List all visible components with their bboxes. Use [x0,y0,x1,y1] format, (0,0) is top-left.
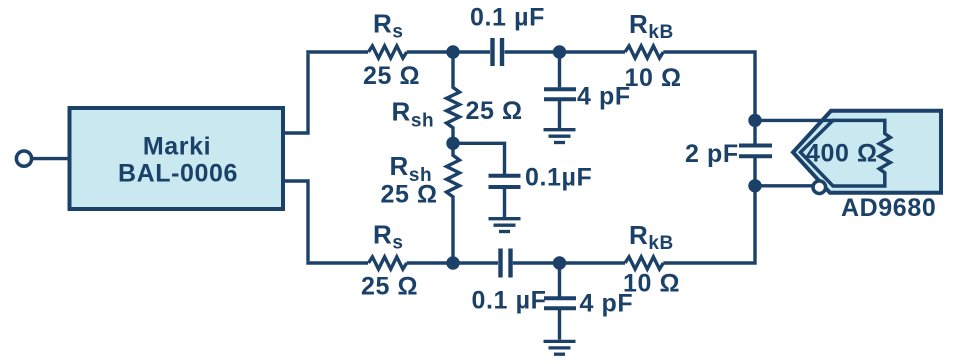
node C [748,114,761,127]
wire C5 to ground [558,308,561,339]
svg-text:Marki: Marki [143,133,211,161]
wire input to balun [32,157,68,160]
wire node E to C4 [453,261,498,264]
svg-text:0.1 µF: 0.1 µF [472,287,547,315]
resistor Rsh1 vertical [447,52,460,143]
capacitor C2 4pF top [544,89,576,99]
svg-text:RkB: RkB [629,220,674,254]
wire node A to C1 [453,50,490,53]
svg-text:10 Ω: 10 Ω [623,269,680,297]
wire node F down to C5 [558,263,561,297]
wire node G to ADC minus input [755,184,812,187]
wire Rs to node A [407,50,453,53]
node B [553,45,566,58]
wire RkB top to node C [663,52,755,120]
wire C2 to ground [558,99,561,128]
wire node F to RkB bottom [560,261,626,264]
svg-text:0.1µF: 0.1µF [525,164,592,192]
wire node C to C6 top [753,120,756,145]
svg-text:RkB: RkB [629,9,674,43]
wire C1 to node B [505,50,560,53]
wire bottom rail left [306,261,368,264]
input terminal [16,151,31,166]
svg-text:10 Ω: 10 Ω [625,64,682,92]
svg-text:Rsh: Rsh [392,96,435,131]
wire balun bottom pin [283,181,308,261]
resistor Rsh2 vertical [447,143,460,263]
node A [446,45,459,58]
ADC U2 outer body [793,111,941,193]
wire Rs bottom to node E [407,261,453,264]
node E [446,256,459,269]
balun U1 Marki BAL-0006 [70,108,284,209]
svg-text:25 Ω: 25 Ω [381,181,438,209]
svg-text:0.1 µF: 0.1 µF [470,4,545,32]
capacitor C4 0.1uF bottom [501,249,511,278]
ground G1 [544,130,576,143]
svg-text:400 Ω: 400 Ω [806,139,878,167]
resistor Rs top [368,46,406,58]
capacitor C3 0.1uF mid [489,176,521,187]
node F [553,256,566,269]
svg-text:Rs: Rs [373,219,404,253]
wire balun top pin [283,54,308,133]
resistor Rs bottom [368,257,406,269]
resistor RkB bottom [625,257,663,269]
ADC U2 inner input symbol with 400 ohm termination resistor RT [801,120,891,186]
wire node D to C3 [453,143,505,175]
svg-text:2 pF: 2 pF [685,140,739,168]
wire top rail left [306,50,368,53]
capacitor C6 2pF [739,146,772,157]
wire node B to RkB top [560,50,626,53]
wire node C to ADC plus input [755,119,836,122]
ground G2 [489,219,521,232]
capacitor C1 0.1uF top [493,38,503,66]
node G [748,179,761,192]
wire RkB bottom to node G [663,186,755,263]
wire C4 to node F [513,261,560,264]
svg-text:BAL-0006: BAL-0006 [118,160,238,188]
svg-text:25 Ω: 25 Ω [361,273,418,301]
svg-text:Rs: Rs [373,8,404,42]
resistor RkB top [625,46,663,58]
node D [446,137,459,150]
wire node B down to C2 [558,52,561,87]
wire C6 bottom to node G [753,156,756,186]
svg-text:25 Ω: 25 Ω [363,62,420,90]
svg-text:AD9680: AD9680 [841,194,936,222]
capacitor C5 4pF bottom [544,298,576,308]
wire C3 to ground [503,187,506,217]
ADC open circle pin [813,181,826,194]
svg-text:25 Ω: 25 Ω [466,97,523,125]
svg-text:4 pF: 4 pF [577,83,631,111]
ground G3 [544,341,576,354]
